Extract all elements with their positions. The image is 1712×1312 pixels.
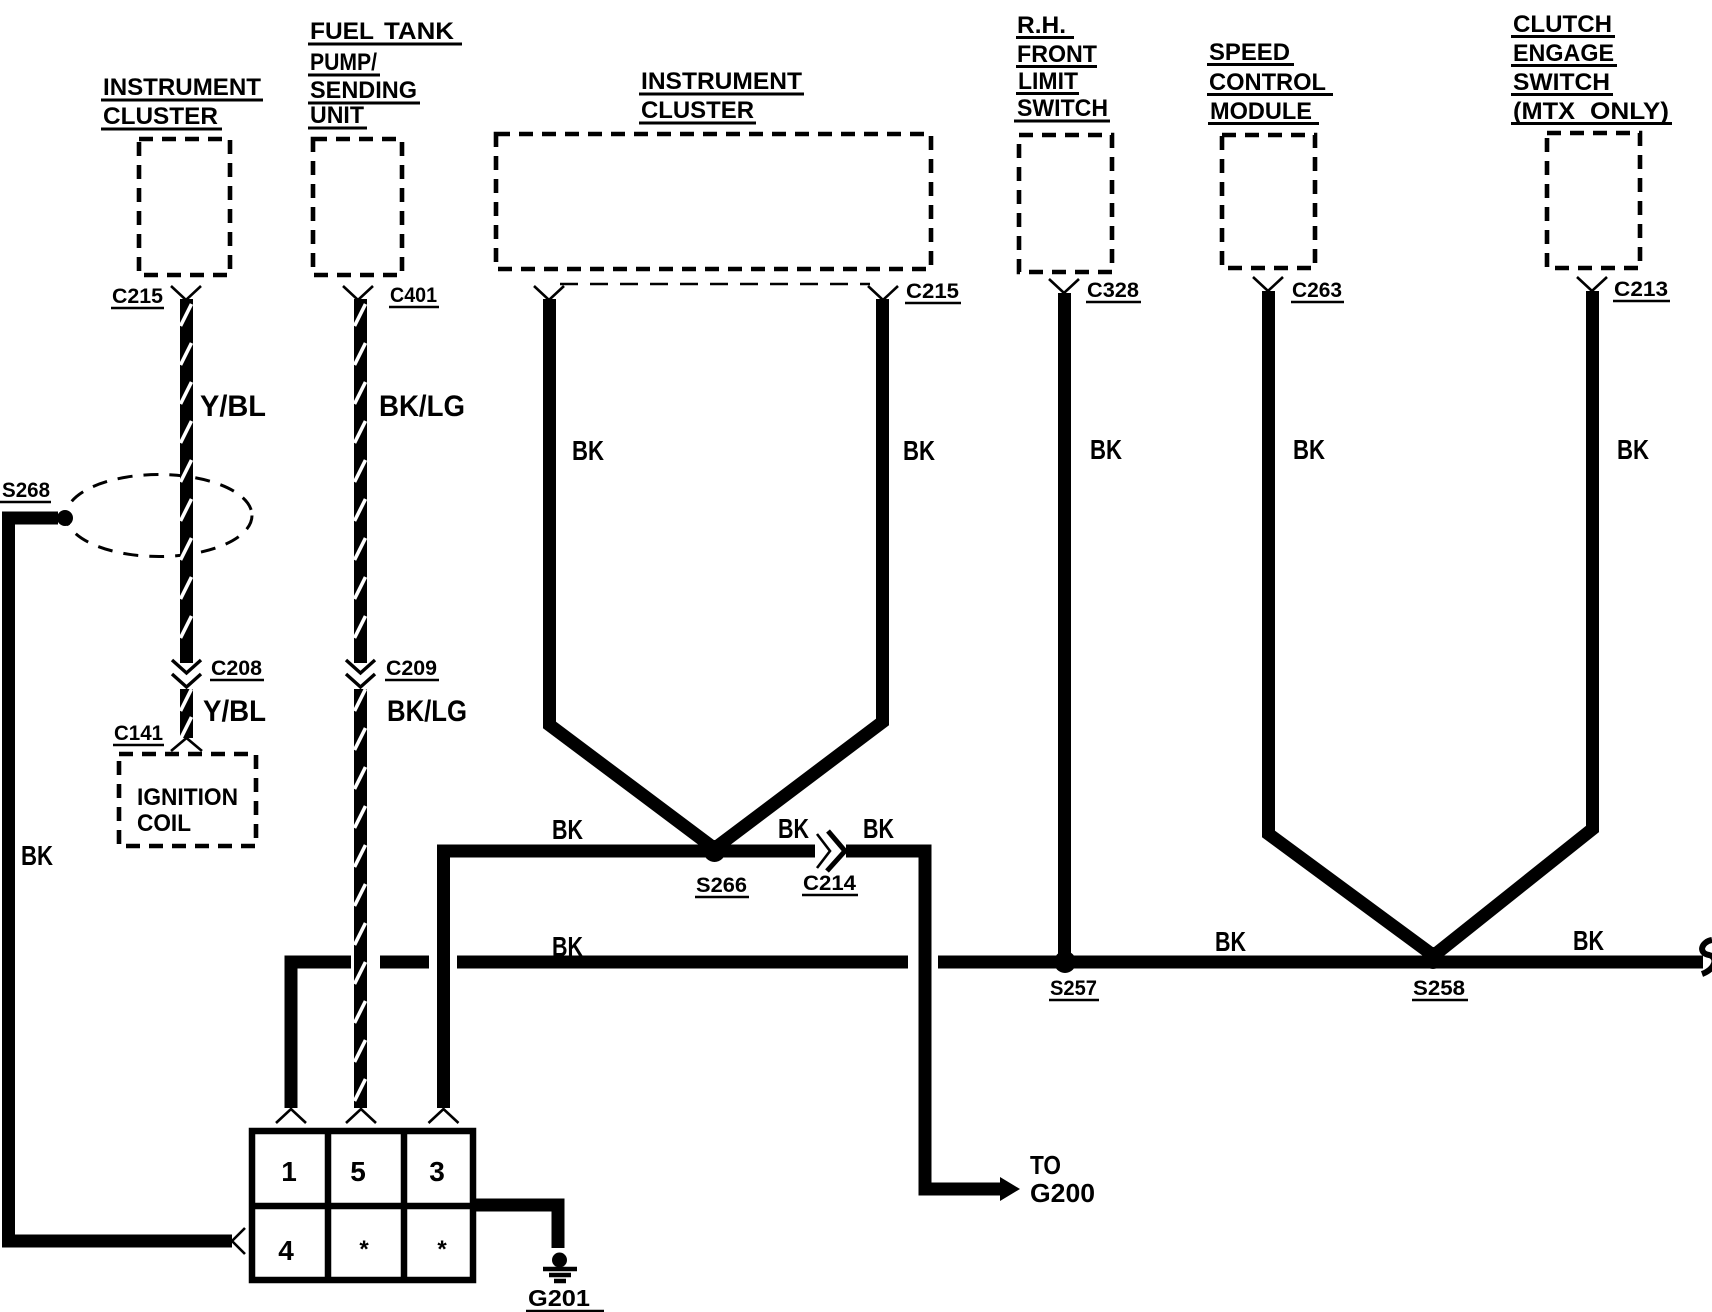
svg-text:BK: BK [1617,434,1649,465]
splice S258 [1412,947,1468,1000]
svg-text:3: 3 [429,1156,445,1187]
svg-text:BK: BK [572,435,604,466]
svg-text:BK: BK [21,840,53,871]
component speed control module [1207,39,1333,268]
component instrument cluster (left) [101,74,263,275]
svg-text:TO: TO [1030,1150,1061,1180]
svg-text:IGNITION: IGNITION [137,784,238,811]
svg-text:Y/BL: Y/BL [200,390,266,423]
svg-text:SWITCH: SWITCH [1017,95,1108,122]
svg-text:C215: C215 [112,285,163,308]
splice S257 [1049,951,1099,1000]
svg-text:PUMP/: PUMP/ [310,49,377,76]
continuation squiggle at right end of bus [1702,940,1712,974]
wire BK right cluster lead to S266 [718,299,935,846]
svg-text:C328: C328 [1087,279,1139,302]
svg-text:1: 1 [281,1156,297,1187]
svg-text:ONLY): ONLY) [1590,98,1669,125]
svg-text:C141: C141 [114,722,163,745]
svg-text:BK: BK [1293,434,1325,465]
svg-text:SWITCH: SWITCH [1513,69,1610,96]
wire BK from C213 to S258 [1437,291,1649,953]
connector C215 (center instrument cluster) [534,280,961,303]
splice S268 [0,479,73,526]
svg-text:S266: S266 [696,874,747,897]
svg-text:BK: BK [903,435,935,466]
svg-text:BK: BK [778,813,809,844]
wire BK from S268 down-left to connector grid pin 4 [9,518,246,1254]
ground G201 [526,1253,604,1312]
svg-text:TANK: TANK [384,18,455,45]
wire BK/LG from C401 to C209 (hatched) [355,299,466,663]
wire BK/LG from C209 to grid pin 5 (hatched) [346,689,467,1123]
wire BK from S266 to grid pin 3 [429,814,816,1123]
svg-text:CLUSTER: CLUSTER [103,103,218,130]
svg-text:SENDING: SENDING [310,77,417,104]
svg-text:BK: BK [1215,926,1246,957]
svg-text:BK: BK [863,813,894,844]
svg-text:COIL: COIL [137,810,191,837]
svg-text:S257: S257 [1050,977,1097,1000]
connector grid (pins 1,5,3 / 4,*,*) [252,1131,473,1280]
connector C401 [343,284,439,307]
svg-text:CONTROL: CONTROL [1209,69,1326,96]
svg-text:C263: C263 [1292,279,1342,302]
svg-text:*: * [437,1236,447,1263]
component ignition coil [119,754,256,846]
wire BK left cluster lead to S266 [550,299,712,846]
connector C208 (in-line) [172,657,264,687]
wire BK ground bus from grid pin 1 to right edge [276,925,1703,1123]
svg-text:C213: C213 [1614,278,1668,301]
svg-text:BK: BK [1573,925,1604,956]
connector C213 [1577,277,1670,301]
svg-text:BK: BK [1090,434,1122,465]
wire Y/BL from C215 to C208 (hatched) [181,299,267,663]
svg-text:FUEL: FUEL [310,18,374,45]
svg-text:CLUSTER: CLUSTER [641,97,754,124]
splice S266 [695,840,749,897]
svg-text:LIMIT: LIMIT [1018,68,1078,95]
svg-text:(MTX: (MTX [1513,98,1575,125]
component instrument cluster (center) [496,68,931,269]
connector C209 (in-line) [346,657,439,687]
svg-text:INSTRUMENT: INSTRUMENT [103,74,261,101]
connector C141 [113,722,202,751]
svg-text:INSTRUMENT: INSTRUMENT [641,68,802,95]
component R.H. front limit switch [1014,12,1112,272]
svg-text:S268: S268 [2,479,50,502]
dashed tie line between cluster terminals [560,283,870,286]
svg-text:MODULE: MODULE [1210,98,1312,125]
svg-text:BK: BK [552,814,583,845]
svg-text:BK/LG: BK/LG [379,390,465,423]
svg-text:C214: C214 [803,872,856,895]
connector C328 [1049,279,1141,302]
svg-text:UNIT: UNIT [310,102,364,129]
svg-text:4: 4 [278,1235,294,1266]
connector C215 (left instrument cluster) [111,285,201,308]
svg-text:G201: G201 [528,1285,590,1311]
wire BK from C328 to S257 [1065,293,1123,962]
svg-text:S258: S258 [1413,977,1465,1000]
takeout ellipse (dashed) [66,475,252,557]
svg-text:C401: C401 [390,284,437,307]
wire from grid to ground G201 [473,1205,558,1248]
connector C214 (in-line) [778,813,858,895]
svg-text:C215: C215 [906,280,959,303]
svg-text:C209: C209 [386,657,437,680]
connector C263 [1253,277,1344,302]
svg-text:FRONT: FRONT [1017,41,1097,68]
component fuel tank pump/sending unit [308,18,462,275]
svg-text:C208: C208 [211,657,262,680]
wire BK from C263 to S258 [1269,291,1431,953]
svg-text:G200: G200 [1030,1178,1095,1208]
svg-text:R.H.: R.H. [1017,12,1066,39]
component clutch engage switch (MTX only) [1511,11,1672,268]
svg-text:5: 5 [350,1156,366,1187]
svg-text:CLUTCH: CLUTCH [1513,11,1612,38]
svg-text:SPEED: SPEED [1209,39,1290,66]
svg-text:BK/LG: BK/LG [387,695,467,728]
svg-text:Y/BL: Y/BL [203,695,266,728]
wire Y/BL from C208 to ignition coil C141 (hatched) [181,689,267,739]
wire BK from C214 to G200 takeout [846,813,1095,1208]
svg-text:ENGAGE: ENGAGE [1513,40,1614,67]
svg-text:*: * [359,1236,369,1263]
